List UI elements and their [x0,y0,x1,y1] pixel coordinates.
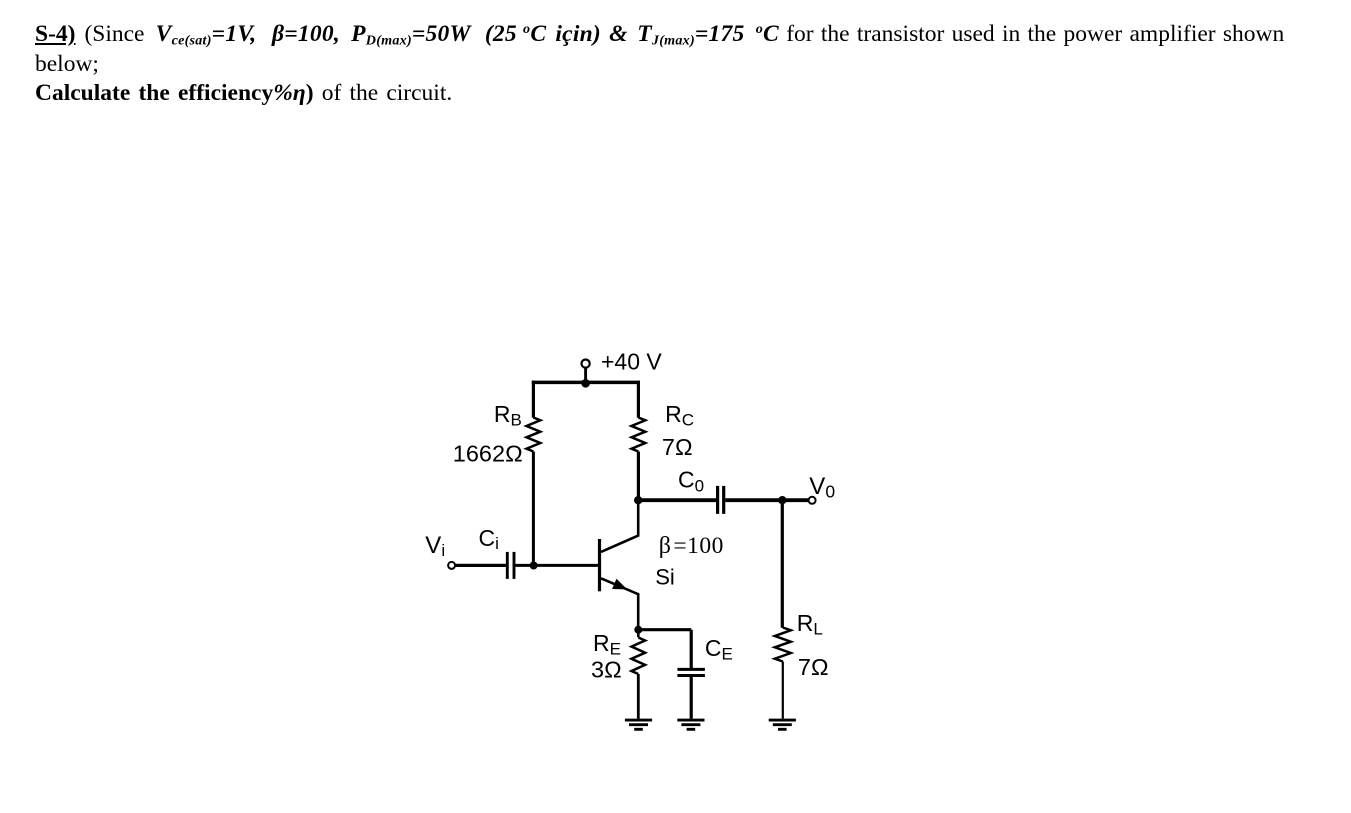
svg-text:7Ω: 7Ω [798,654,829,680]
node emitter junction [634,626,642,634]
svg-text:RC: RC [665,401,694,430]
svg-text:RB: RB [494,401,522,430]
wire RL bottom lead [782,662,784,719]
transistor Q1 emitter lead [601,578,638,630]
wire collector to C0 [638,498,716,502]
wire RB top lead [532,381,535,418]
svg-text:+40 V: +40 V [601,348,662,374]
resistor RE [632,638,646,675]
node collector junction [634,496,642,504]
svg-text:Si: Si [655,564,675,589]
svg-text:7Ω: 7Ω [662,434,693,460]
ground RL [769,720,796,729]
wire RE top stub [637,630,640,638]
wire Vi to Ci [455,564,506,567]
node base junction [530,562,538,570]
wire RE bottom lead [637,674,640,719]
svg-text:RL: RL [797,610,823,638]
svg-text:3Ω: 3Ω [591,657,622,683]
svg-text:CE: CE [705,635,733,663]
svg-text:V0: V0 [809,473,835,501]
svg-text:RE: RE [593,630,621,658]
node supply junction [581,379,590,388]
transistor Q1 emitter arrow [612,579,627,590]
wire RC bottom lead [637,452,640,501]
resistor RL [775,628,791,662]
wire CE top lead [690,630,693,668]
svg-text:C0: C0 [678,466,704,495]
wire RL top lead [781,500,784,628]
terminal Vi input [448,562,455,569]
wire Ci to base [516,564,598,567]
ground CE [677,720,704,729]
svg-text:1662Ω: 1662Ω [453,440,523,466]
svg-text:=100: =100 [673,533,724,559]
resistor RC [632,418,646,452]
transistor Q1 base bar [598,539,601,591]
transistor Q1 collector lead [601,500,638,552]
svg-text:Ci: Ci [479,525,499,553]
svg-text:Vi: Vi [425,532,445,560]
svg-text:β: β [659,533,671,559]
terminal V0 [809,497,816,504]
wire RC top lead [637,381,640,418]
capacitor CE [677,669,705,675]
wire RB bottom lead [532,452,535,566]
capacitor C0 [718,486,724,514]
wire C0 to output node [725,498,782,502]
ground RE [625,720,652,729]
node output junction [778,496,786,504]
terminal +40V supply [582,360,590,368]
capacitor Ci [507,552,514,579]
wire top rail [532,381,640,385]
wire emitter node to CE [638,628,691,631]
wire to V0 terminal [782,498,808,502]
wire CE bottom lead [690,677,693,719]
wire supply stub [584,368,587,383]
resistor RB [527,418,541,452]
